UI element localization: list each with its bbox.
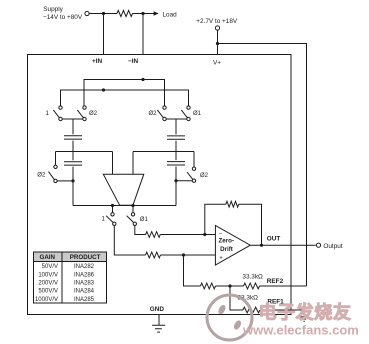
watermark logo circle xyxy=(207,295,252,340)
node phi2 right xyxy=(174,179,177,182)
svg-text:200V/V: 200V/V xyxy=(38,281,58,287)
svg-text:REF2: REF2 xyxy=(267,278,284,285)
resistor R6 33.3k xyxy=(244,283,260,289)
switch S5 mid left (phi2) xyxy=(55,152,57,166)
node load junction (-IN tap) xyxy=(141,12,144,15)
IC box xyxy=(28,55,292,315)
node amp out left xyxy=(111,204,114,207)
op-amp U1 xyxy=(215,226,250,266)
node +IN bus xyxy=(102,88,105,91)
node phi2 left xyxy=(71,179,74,182)
svg-text:OUT: OUT xyxy=(267,236,281,243)
svg-text:Ø2: Ø2 xyxy=(200,173,209,179)
svg-text:+IN: +IN xyxy=(92,58,103,65)
switch S1 input left (1) xyxy=(59,106,62,109)
svg-text:33.3kΩ: 33.3kΩ xyxy=(242,274,263,281)
terminal Output xyxy=(316,243,320,247)
node +line tap xyxy=(182,253,185,256)
svg-text:500V/V: 500V/V xyxy=(38,289,58,295)
wire supply top xyxy=(89,13,153,15)
svg-text:Output: Output xyxy=(323,243,342,250)
wire left mid rail xyxy=(56,151,113,153)
capacitor C2 xyxy=(64,162,82,165)
wire V+ rail to REF2 xyxy=(218,44,307,287)
capacitor C3 xyxy=(167,136,185,139)
svg-text:100V/V: 100V/V xyxy=(38,272,58,278)
gain table xyxy=(34,252,107,303)
node amp out right xyxy=(131,204,134,207)
node OUT xyxy=(260,244,263,247)
wire right mid rail xyxy=(133,151,194,153)
svg-text:1000V/V: 1000V/V xyxy=(35,297,58,303)
wire to +line xyxy=(114,226,145,256)
resistor R5 xyxy=(201,283,216,289)
wire right cap column xyxy=(175,119,177,206)
amp input stubs xyxy=(113,152,134,175)
switch S6 mid right (phi2) xyxy=(193,152,195,168)
node V+ junction xyxy=(216,42,219,45)
svg-text:INA285: INA285 xyxy=(74,297,95,303)
svg-text:GAIN: GAIN xyxy=(40,254,56,261)
switch S2 input left (phi2) xyxy=(83,106,86,109)
wire divider down xyxy=(230,286,243,310)
svg-text:www.elecfans.com: www.elecfans.com xyxy=(242,323,359,338)
svg-text:INA284: INA284 xyxy=(74,289,95,295)
svg-text:−14V to +80V: −14V to +80V xyxy=(43,14,83,21)
wire upper bus (-IN) xyxy=(84,80,165,107)
switch S4 input right (phi1) xyxy=(187,106,190,109)
wire + tap to divider xyxy=(184,255,201,286)
wire right pair bottom xyxy=(165,118,189,120)
resistor R3 xyxy=(146,252,161,258)
capacitor C1 xyxy=(64,136,82,139)
resistor R7 33.3k xyxy=(243,307,260,313)
svg-text:Zero-: Zero- xyxy=(219,238,234,245)
feedback wire xyxy=(205,204,226,234)
svg-text:INA282: INA282 xyxy=(74,264,95,270)
svg-text:−IN: −IN xyxy=(128,58,139,65)
node divider xyxy=(228,284,231,287)
wire left cap column xyxy=(72,119,74,206)
svg-text:Supply: Supply xyxy=(43,6,63,13)
svg-text:INA286: INA286 xyxy=(74,272,95,278)
node supply junction (+IN tap) xyxy=(102,12,105,15)
svg-text:50V/V: 50V/V xyxy=(42,264,58,270)
ground GND xyxy=(152,315,165,333)
svg-text:INA283: INA283 xyxy=(74,281,95,287)
svg-text:Ø1: Ø1 xyxy=(140,217,149,223)
ground REF1 xyxy=(300,310,308,321)
wire left pair bottom xyxy=(61,118,87,120)
switch S7 output left (1) xyxy=(112,206,114,213)
wire amp bottom bus xyxy=(73,205,176,207)
switch S3 input right (phi2) xyxy=(163,106,166,109)
svg-text:GND: GND xyxy=(150,306,165,313)
svg-text:Ø1: Ø1 xyxy=(193,111,202,117)
svg-text:+: + xyxy=(219,255,223,261)
wire to -line xyxy=(135,226,146,235)
wire +IN vertical xyxy=(103,14,105,91)
wire lower bus (+IN) xyxy=(61,90,189,106)
resistor R2 xyxy=(146,232,161,238)
node feedback tap xyxy=(203,233,206,236)
arrow to Load xyxy=(153,13,159,15)
wire V+ down xyxy=(217,30,219,55)
wire -IN vertical xyxy=(142,14,144,80)
svg-text:Ø2: Ø2 xyxy=(37,173,46,179)
svg-text:Ø2: Ø2 xyxy=(149,111,158,117)
node -IN bus xyxy=(141,78,144,81)
svg-text:+2.7V to +18V: +2.7V to +18V xyxy=(196,18,238,25)
svg-text:电子发烧友: 电子发烧友 xyxy=(259,302,352,323)
svg-text:Drift: Drift xyxy=(220,246,233,253)
main amplifier A1 xyxy=(103,174,144,205)
svg-text:Ø2: Ø2 xyxy=(89,111,98,117)
svg-text:PRODUCT: PRODUCT xyxy=(70,254,101,261)
svg-text:Load: Load xyxy=(163,12,178,19)
svg-text:V+: V+ xyxy=(213,59,221,66)
wire OUT xyxy=(250,244,315,246)
switch S8 output right (phi1) xyxy=(132,206,134,213)
resistor R4 feedback xyxy=(226,201,239,207)
capacitor C4 xyxy=(167,162,185,165)
resistor shunt xyxy=(117,10,133,16)
terminal supply xyxy=(85,11,89,15)
